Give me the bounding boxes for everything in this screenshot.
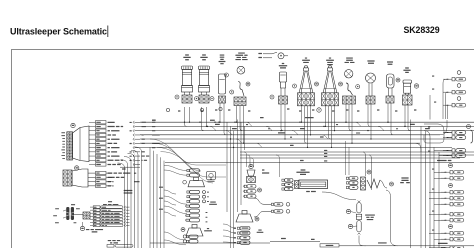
control head label: [210, 202, 216, 203]
pin row 7 RH DRVR(+): [96, 146, 107, 149]
wire RED label under pin rows: [122, 168, 126, 169]
balloon left of reading light 1: [293, 84, 297, 88]
switch jumper at top (230/20B): [258, 53, 262, 54]
frame left border: [11, 50, 13, 248]
balloon right of reading light 1: [315, 82, 319, 86]
HTR A/C panel connector block: [83, 212, 90, 219]
right connector group brace: [471, 130, 473, 143]
bus wire 4: [140, 134, 440, 136]
mid line bend down 1: [363, 152, 366, 176]
balloon right of dome switch 1: [246, 82, 250, 86]
SPL center cross box: [356, 214, 361, 219]
pin row 10 SUPRT GRAY 15: [96, 159, 107, 162]
sweep curve 4: [161, 152, 214, 183]
connector SPL vertical pill upper: [357, 203, 361, 214]
blower resistor body: [247, 170, 255, 176]
blower feed verticals: [244, 152, 247, 167]
HTR A/C control panel label: [86, 229, 89, 230]
pin row 11 APB A/C PWR: [96, 163, 107, 166]
HTR panel row 6 TMP MOTOR A/B ON/OFF: [93, 221, 100, 224]
balloon 2 between outlets: [195, 97, 199, 101]
bus step join 1: [246, 122, 252, 126]
right lower connector group 2: [449, 184, 453, 188]
right bottom single: [450, 246, 453, 248]
bus wire BLK: [140, 121, 474, 123]
SPL drop wire from fluorescent area: [322, 192, 356, 200]
band extra labels: [246, 124, 248, 125]
balloon drop node 3: [219, 107, 222, 110]
wire corner into vertical B: [415, 143, 421, 152]
sweep curve 2: [154, 143, 202, 171]
pill column lower rows: [187, 205, 189, 207]
pin row 5 LK DRVR(+): [96, 137, 107, 140]
vertical harness bundle mid: [226, 122, 228, 212]
right vertical harness bundle: [410, 120, 412, 248]
bottom bus wire right segment: [339, 245, 474, 247]
pill column upper rows: [187, 169, 189, 171]
12V outlet no.1 (12V OUTLET 20A): [185, 54, 189, 55]
balloon above blower switch: [367, 170, 371, 174]
sleeper harness row 3 RLY 1: [96, 180, 107, 183]
right lower connector group 4: [449, 225, 453, 229]
LH speaker symbol: [186, 228, 203, 236]
pin row 9 LP DRVR(+): [96, 154, 107, 157]
right bundle curve from GRN stub: [447, 105, 450, 119]
reading light no.2 (6m READING LIGHT EXTRA): [329, 58, 331, 59]
balloon LH speaker pill 1: [183, 235, 186, 238]
bus step join 10: [378, 126, 384, 130]
right bundle curve from SPO2: [446, 92, 449, 119]
lic lamp label: [306, 191, 310, 192]
bus step join 6: [256, 143, 262, 147]
sleeper harness row 2 GROUND SPR 6.0: [96, 176, 107, 179]
balloon left of RH dash speaker: [183, 180, 187, 184]
voltage light (6m VOLTAGE LIGHT): [282, 63, 284, 64]
gauge labels right bundle: [432, 76, 434, 77]
right lower connector group 1: [449, 164, 453, 168]
switch in-bag dome lamp no.2 (SWITCH IN-BAG DOME LAMP): [346, 58, 353, 59]
right connector R5: [452, 136, 455, 139]
HTR panel row 1 LIGHT: [93, 206, 100, 209]
vertical from outlet 4PT: [429, 95, 431, 120]
text cursor: [107, 26, 109, 38]
balloon above SPO3: [457, 97, 461, 101]
fuse link 12V outlet (FUSE LINK OUTLET 12V 10A): [220, 54, 225, 55]
sub woofer label: [258, 230, 261, 231]
12V outlet no.2 (12V OUTLET 20A): [202, 54, 206, 55]
A40B lead wire to HTR block: [74, 214, 83, 216]
right connector R7: [452, 154, 455, 157]
blower switch connector pills: [346, 177, 348, 179]
balloon right of floor lamp: [396, 78, 400, 82]
connector SPL vertical pill lower: [357, 221, 361, 233]
vertical bundle stubs with labels: [159, 187, 163, 188]
sleeper harness row 4 RLY 2: [96, 184, 107, 187]
pin row 1 GROUND: [96, 121, 107, 124]
reading light no.1 (6m READING LIGHT): [305, 58, 307, 59]
balloon above fuse link: [224, 73, 228, 77]
balloon left of voltage light: [270, 95, 274, 99]
balloon right of dome switch 2: [356, 85, 360, 89]
sweep curve to LH speaker pills: [164, 232, 186, 245]
bottom bus wire mid segment: [270, 241, 320, 243]
bus step join 9: [355, 122, 361, 126]
blower resistor pills: [244, 185, 246, 187]
HI blower resistor assembly: [262, 169, 264, 170]
A40B grommet label: [71, 204, 75, 205]
switch sleeper dome lamp no.1 (SWITCH SLPR/RD LTS DOME LAMP): [238, 53, 245, 54]
blower switch feed verticals: [345, 141, 347, 175]
LH speaker pills: [186, 236, 188, 238]
fluorescent feed curve: [276, 155, 280, 177]
bus wire 7: [140, 146, 452, 148]
sweep curve to control head: [164, 196, 187, 214]
bus step join 4: [322, 135, 328, 139]
A40B grommet throat: [66, 212, 74, 216]
pill column lower gauge labels: [206, 211, 208, 214]
blower switch mechanism: [367, 179, 380, 188]
HTR panel row 3 TMP MOTOR P38 ON/OFF: [93, 212, 100, 215]
balloon below HTR panel connector: [80, 226, 84, 230]
balloon right of 12V outlet 3: [414, 84, 418, 88]
bus step join 3: [292, 131, 298, 135]
12V outlet no.3 (12V OUTLET 4PT): [405, 67, 409, 68]
HTR A/C bottom row: [107, 245, 114, 248]
blower resistor balloon 2: [258, 188, 262, 192]
bus step join 2: [266, 126, 272, 130]
in-bag light (IN-BAG LIGHT): [367, 60, 374, 61]
pill column middle rows: [187, 191, 189, 193]
SPL chevron top: [358, 201, 361, 203]
pin row 2 ACCESS PWR 12: [96, 125, 107, 128]
dual fluorescent light label: [301, 169, 306, 170]
balloon right of outlet 2: [210, 97, 214, 101]
balloon above bulkhead connector: [71, 123, 75, 127]
CHO leads: [264, 203, 271, 205]
HTR A/C P38 label: [108, 240, 111, 241]
balloon above second connector: [75, 166, 79, 170]
A40B wire hooks: [63, 210, 66, 218]
bulkhead connector J1 pin name column: [61, 131, 65, 134]
balloon above SPO1: [457, 71, 461, 75]
balloon right of reading light 2: [339, 82, 343, 86]
right column feed wires: [434, 133, 452, 156]
balloon LH speaker pill 2: [183, 240, 186, 243]
right lower connector group 3: [450, 213, 453, 216]
bottom bus wire left segment: [150, 242, 270, 244]
bus wire 5: [140, 138, 455, 140]
bus wire 2: [140, 125, 474, 127]
pin row 6 LOAD LTD: [96, 142, 107, 145]
component drop wires to bus band: [185, 107, 187, 126]
A40B grommet bar 1: [66, 207, 69, 220]
balloon left of LH speaker: [181, 228, 185, 232]
voltmeter circle: [278, 53, 284, 59]
bus step join 8: [226, 131, 232, 135]
sweep curve 3: [157, 147, 226, 177]
sweep curve to subwoofer pills: [223, 224, 236, 233]
bus step join 5: [236, 139, 242, 143]
svg-text:SK28329: SK28329: [404, 25, 440, 35]
bus wire 3: [140, 130, 474, 132]
sweep curve 1: [150, 139, 226, 165]
mid line group labels: [324, 150, 327, 151]
A40B side labels: [55, 207, 59, 210]
SPL bottom wire: [359, 236, 366, 246]
floor lamp (FLOOR LAMP): [387, 61, 393, 62]
HTR panel row 2 DIMMER GND: [93, 209, 100, 212]
right connector SPO1: [452, 78, 455, 81]
right connector R6 pair lower: [452, 149, 455, 152]
blower resistor balloon: [249, 164, 253, 168]
connector SPL label: [365, 215, 375, 216]
right bundle curve from SPO1: [443, 79, 448, 119]
balloon right of sub woofer: [255, 217, 259, 221]
CHO connector pair upper: [271, 203, 273, 205]
right connector SPO2: [452, 91, 455, 94]
sub woofer pills: [237, 227, 239, 229]
sub woofer speaker symbol: [236, 214, 253, 222]
fluorescent lamp tube: [299, 180, 328, 189]
bottom vertical wire right of SPL: [386, 190, 398, 246]
LH speaker label: [207, 228, 209, 229]
junction dots on bus: [214, 122, 215, 123]
relay box with circle: [207, 172, 216, 180]
right group balloon: [467, 125, 471, 129]
mid line bend down 2: [369, 155, 372, 190]
balloon fuse link lower: [230, 90, 234, 94]
svg-text:Ultrasleeper Schematic: Ultrasleeper Schematic: [10, 26, 107, 36]
HTR panel row 7 A/C SW: [93, 224, 100, 227]
right connector GRN: [452, 104, 455, 107]
second connector fan: [72, 169, 88, 187]
bus wire 6: [140, 142, 420, 144]
fluorescent connector pills: [282, 179, 284, 181]
HTR panel row 4 TMP MOTOR A/B ON/OFF: [93, 215, 100, 218]
balloon 1 left of outlet 1: [175, 95, 179, 99]
vertical harness bundle group B: [149, 147, 151, 248]
balloon drop node 1: [166, 108, 169, 111]
COMP label above HTR rows: [108, 201, 112, 202]
balloon SPL upper: [346, 209, 350, 213]
sleeper harness label: [124, 190, 133, 191]
mid horizontal wires to right column: [240, 151, 474, 153]
frame top border: [11, 49, 474, 51]
HTR panel row 5 TMP MOTOR P38 ON/OFF: [93, 218, 100, 221]
A40B grommet bar 2: [71, 207, 74, 220]
balloon drop node 2: [200, 108, 203, 111]
wire corner into vertical A: [424, 131, 430, 139]
CHO connector pair lower: [271, 210, 273, 212]
pin row 8 HD LIGHT: [96, 150, 107, 153]
balloon SPL lower: [348, 224, 352, 228]
wire corner loop 2: [424, 124, 444, 143]
RH speaker label: [210, 179, 212, 180]
bundle peel-off curves: [164, 190, 176, 205]
wire corner loop 1: [440, 120, 447, 135]
bus step join 7: [210, 126, 216, 130]
switch blower 3spd label: [401, 177, 408, 178]
bulkhead connector J1 hatched block: [67, 132, 73, 160]
vertical harness bundle group A: [118, 163, 125, 248]
sleeper harness row 1 BUNK FAN THA SPD/HI: [96, 171, 107, 174]
pin row 4 BAT PWR: [96, 133, 107, 136]
pin row 3 RH DRVR(+): [96, 129, 107, 132]
balloon left of reading light 2: [317, 108, 321, 112]
fluorescent connector hatch: [295, 181, 299, 189]
RH dash speaker trapezoid: [188, 181, 205, 187]
connector fan-out body: [73, 126, 90, 162]
bottom wire name box WIRE500: [320, 244, 339, 247]
balloon right of blower switch: [390, 182, 394, 186]
right connector R4: [452, 131, 455, 134]
balloon above SPO2: [457, 84, 461, 88]
second connector hatched block: [63, 170, 72, 186]
SPL chevron bottom: [358, 233, 361, 235]
wire gauge labels top row: [178, 110, 180, 111]
